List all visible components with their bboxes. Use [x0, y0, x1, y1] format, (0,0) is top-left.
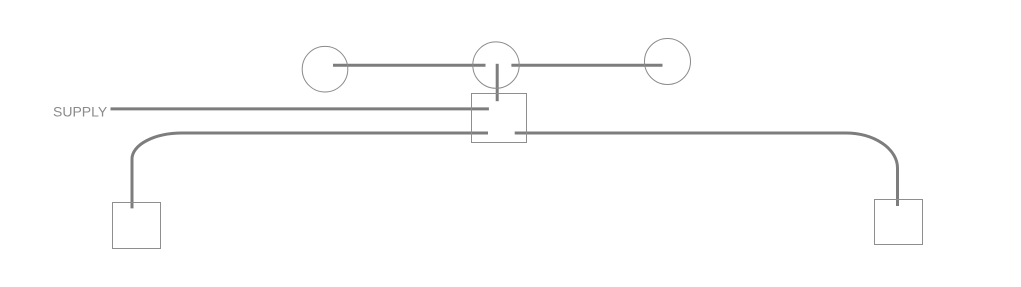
lamp circle middle [473, 42, 519, 88]
junction box middle [472, 94, 527, 143]
wire right branch [515, 133, 898, 206]
outlet box bottom-right [875, 200, 923, 245]
wire SUPPLY feed [111, 107, 489, 110]
wire top-left segment [333, 64, 486, 67]
wire vertical stub [496, 64, 499, 101]
outlet box bottom-left [113, 203, 161, 249]
lamp circle left [302, 46, 348, 92]
svg-text:SUPPLY: SUPPLY [53, 103, 108, 119]
wire top-right segment [511, 64, 662, 67]
lamp circle right [645, 39, 691, 85]
wire left branch [132, 133, 488, 208]
